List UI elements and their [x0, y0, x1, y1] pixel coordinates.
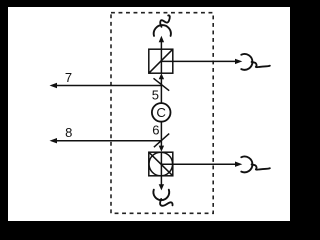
svg-text:C: C — [156, 105, 166, 120]
svg-text:8: 8 — [65, 125, 72, 140]
svg-text:7: 7 — [65, 70, 72, 85]
svg-text:5: 5 — [152, 88, 159, 103]
svg-text:6: 6 — [152, 123, 159, 138]
